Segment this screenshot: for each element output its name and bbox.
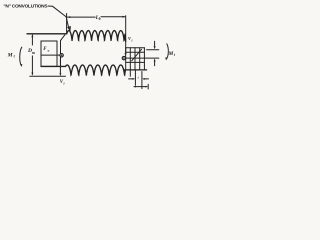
right dim down arrowhead bbox=[154, 46, 156, 49]
thickness dim vertical B bbox=[141, 72, 143, 89]
thickness dim left line bbox=[129, 78, 134, 80]
svg-text:a: a bbox=[48, 48, 50, 52]
anchor grid vertical 5 bbox=[143, 48, 145, 70]
svg-text:"N" CONVOLUTIONS: "N" CONVOLUTIONS bbox=[3, 4, 48, 10]
Mt right arc arrowhead bbox=[165, 57, 167, 60]
anchor grid bottom line bbox=[124, 69, 147, 71]
Dm lower arrow stem bbox=[31, 56, 33, 75]
anchor grid vertical 3 bbox=[134, 48, 136, 70]
right dim reference line bbox=[147, 49, 159, 51]
right dim up arrow stem bbox=[154, 60, 156, 66]
pitch dim end tick bbox=[147, 84, 149, 89]
V1 right arrowhead bbox=[125, 53, 127, 56]
leader wire from label to first convolution bbox=[48, 6, 69, 29]
svg-text:t: t bbox=[174, 53, 175, 57]
right pivot circle bbox=[122, 56, 125, 59]
box centerline bbox=[41, 54, 60, 56]
end plate to convolution connector bbox=[61, 35, 65, 41]
anchor grid diagonal slash bbox=[132, 49, 142, 61]
top plate line and upper bellows convolutions bbox=[27, 31, 126, 42]
Lb extension line right / V1 force line bbox=[125, 16, 127, 54]
lower bellows convolutions with box bottom line bbox=[41, 65, 125, 75]
thickness dim right line bbox=[143, 78, 148, 80]
left end plate vertical bbox=[60, 41, 62, 66]
anchor grid vertical 4 bbox=[139, 48, 141, 70]
pitch right arrowhead bbox=[145, 86, 148, 88]
leader arrowhead bbox=[67, 26, 71, 32]
Mt left arc arrowhead bbox=[20, 64, 22, 67]
Dm upper arrowhead bbox=[31, 34, 33, 37]
svg-text:m: m bbox=[32, 51, 35, 55]
pitch left arrowhead bbox=[133, 86, 136, 88]
Lb dimension line left segment bbox=[67, 16, 95, 18]
thickness right-pointing arrowhead bbox=[132, 78, 135, 80]
right dim up arrowhead bbox=[154, 59, 156, 62]
Lb right arrowhead bbox=[122, 16, 125, 18]
anchor grid vertical 1 bbox=[125, 48, 127, 70]
Mt left moment arc bbox=[20, 47, 22, 65]
anchor grid horizontal 1 bbox=[126, 47, 145, 49]
Dm upper arrow stem bbox=[31, 35, 33, 45]
centerline from right pivot bbox=[126, 57, 159, 59]
V1 left force arrow stem bbox=[59, 58, 61, 74]
anchor grid horizontal 2 bbox=[126, 51, 145, 53]
Dm lower arrowhead bbox=[31, 73, 33, 76]
thickness left-pointing arrowhead bbox=[142, 78, 145, 80]
bottom plate line bbox=[30, 75, 66, 77]
Lb left arrowhead bbox=[67, 16, 70, 18]
left pivot circle bbox=[60, 54, 63, 57]
pitch dim line bbox=[134, 86, 147, 88]
Mt right moment arc bbox=[166, 44, 168, 59]
Lb extension line left bbox=[66, 14, 68, 34]
svg-text:b: b bbox=[99, 17, 101, 21]
left end box bbox=[41, 41, 57, 66]
V1 left arrowhead bbox=[59, 73, 61, 76]
thickness dim vertical A bbox=[134, 71, 136, 86]
anchor grid horizontal 4 bbox=[126, 61, 145, 63]
Lb dimension line right segment bbox=[101, 16, 125, 18]
right dim down arrow stem bbox=[154, 41, 156, 47]
anchor grid vertical 2 bbox=[129, 48, 131, 77]
